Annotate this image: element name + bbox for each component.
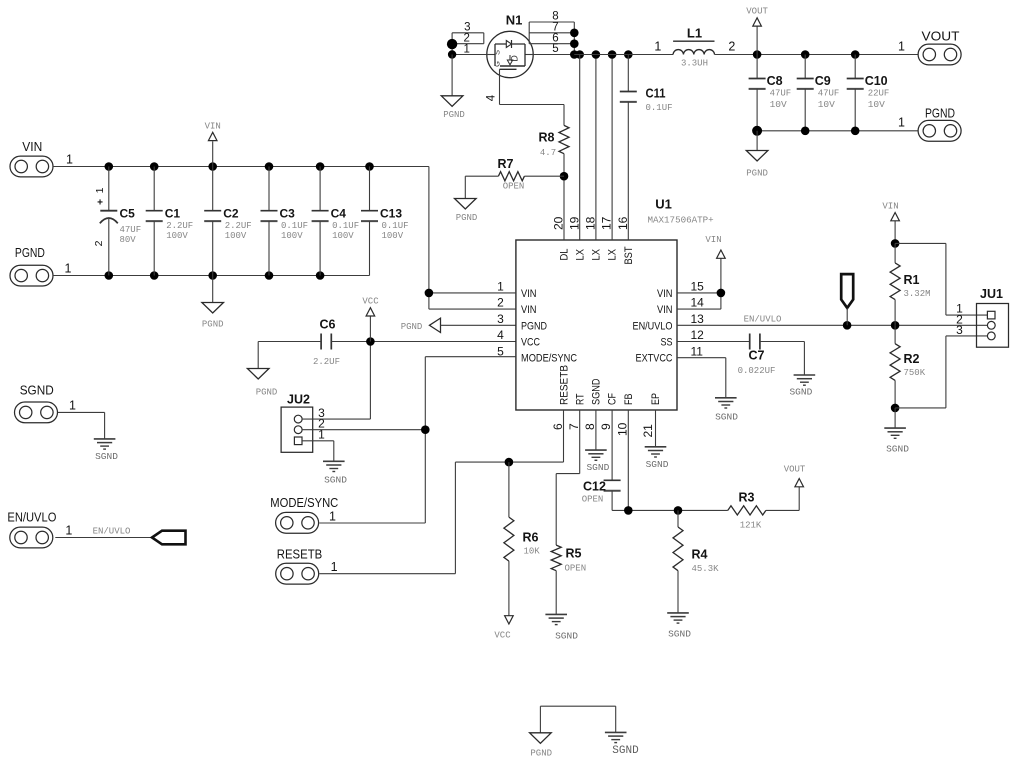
wire PGND out rail: [757, 130, 918, 132]
wire R7 left: [465, 176, 498, 198]
capacitor C8: [749, 55, 792, 131]
svg-text:VIN: VIN: [22, 139, 42, 154]
svg-text:VIN: VIN: [705, 235, 721, 245]
svg-text:3.32M: 3.32M: [904, 289, 931, 299]
wire C6 left to PGND: [258, 342, 321, 369]
svg-text:47UF: 47UF: [770, 89, 792, 99]
ground SGND (JU2): [323, 461, 347, 485]
resistor R2: [890, 325, 926, 408]
resistor R6: [504, 462, 540, 616]
svg-text:MAX17506ATP+: MAX17506ATP+: [648, 215, 714, 226]
svg-text:U1: U1: [655, 197, 672, 212]
ground PGND (C6): [247, 369, 277, 398]
ground SGND (conn): [94, 439, 118, 462]
svg-text:RESETB: RESETB: [277, 547, 323, 562]
svg-text:C9: C9: [815, 74, 831, 88]
wire R8 to DL: [563, 154, 565, 240]
svg-text:SGND: SGND: [715, 412, 738, 423]
resistor R4: [673, 510, 719, 613]
svg-text:80V: 80V: [120, 235, 137, 245]
capacitor C10: [847, 55, 890, 131]
svg-text:EN/UVLO: EN/UVLO: [7, 510, 56, 525]
svg-text:PGND: PGND: [15, 245, 45, 260]
power flag VIN (R1): [882, 202, 899, 244]
node EN/UVLO junctions: [843, 321, 900, 330]
svg-text:R5: R5: [566, 547, 582, 561]
wire EP pin21: [655, 410, 657, 447]
node PGND out junctions: [752, 126, 859, 136]
svg-text:EN/UVLO: EN/UVLO: [744, 315, 782, 325]
svg-text:SGND: SGND: [591, 378, 603, 405]
label U1 top pin names: [559, 246, 635, 264]
svg-text:JU1: JU1: [980, 287, 1003, 301]
wire FB node: [612, 509, 728, 511]
svg-text:1: 1: [94, 187, 106, 193]
svg-text:15: 15: [691, 280, 705, 294]
wire N1 gate: [486, 69, 565, 125]
svg-text:3: 3: [956, 323, 963, 337]
connector SGND J-pads: [15, 383, 77, 423]
svg-text:0.1UF: 0.1UF: [382, 221, 409, 231]
svg-text:SGND: SGND: [886, 444, 909, 455]
label U1 top pin numbers: [552, 216, 630, 230]
wire RT pin7: [556, 410, 580, 545]
ground SGND (EP): [645, 447, 669, 470]
svg-text:C1: C1: [165, 207, 181, 221]
svg-text:1: 1: [331, 560, 338, 574]
svg-text:1: 1: [65, 524, 72, 538]
wire EN/UVLO conn: [55, 537, 152, 539]
svg-text:750K: 750K: [904, 368, 926, 378]
connector MODE/SYNC J-pads: [270, 495, 338, 533]
svg-text:13: 13: [691, 312, 705, 326]
resistor R5: [551, 545, 586, 614]
wire EN/UVLO net: [677, 315, 988, 326]
svg-text:C13: C13: [380, 207, 402, 221]
svg-text:7: 7: [567, 423, 581, 430]
wire JU2-3 to VCC: [302, 342, 370, 420]
svg-text:SGND: SGND: [612, 745, 639, 757]
power flag VCC: [362, 297, 379, 342]
svg-text:SGND: SGND: [20, 383, 54, 398]
wire PGND-SGND tie: [540, 706, 615, 733]
svg-text:VIN: VIN: [882, 202, 898, 212]
svg-text:1: 1: [329, 510, 336, 524]
label U1 right pin names: [633, 288, 673, 365]
node VIN-rail junctions: [105, 162, 374, 171]
flag EN/UVLO (pennant): [152, 531, 186, 545]
svg-text:22UF: 22UF: [868, 89, 890, 99]
svg-text:EN/UVLO: EN/UVLO: [93, 527, 131, 537]
svg-text:C10: C10: [865, 74, 888, 88]
svg-text:C6: C6: [320, 318, 336, 332]
ground SGND (tie): [605, 732, 639, 757]
capacitor C9: [797, 55, 840, 131]
svg-text:SGND: SGND: [646, 459, 669, 470]
svg-text:2.2UF: 2.2UF: [166, 221, 193, 231]
svg-text:PGND: PGND: [202, 320, 224, 330]
capacitor C11: [620, 55, 673, 241]
svg-text:R6: R6: [523, 531, 539, 545]
svg-text:1: 1: [497, 280, 504, 294]
capacitor C2: [204, 167, 252, 276]
svg-text:1: 1: [654, 40, 661, 54]
wire SGND pin8: [595, 410, 597, 450]
capacitor C6: [313, 318, 340, 368]
svg-text:EN/UVLO: EN/UVLO: [633, 320, 673, 332]
svg-text:3: 3: [497, 312, 504, 326]
svg-text:OPEN: OPEN: [582, 495, 604, 505]
svg-text:PGND: PGND: [925, 106, 955, 121]
label N1 pins 3/2/1: [463, 22, 470, 56]
svg-text:4.7: 4.7: [540, 148, 556, 158]
wire VIN pins 15/14: [677, 259, 721, 310]
wire N1 source ladder: [452, 33, 487, 55]
node R7/R8 junction: [560, 172, 569, 181]
svg-text:2: 2: [728, 40, 735, 54]
svg-text:SGND: SGND: [555, 631, 578, 642]
svg-text:PGND: PGND: [746, 169, 768, 179]
connector PGND J-pads: [10, 245, 72, 286]
svg-text:10V: 10V: [818, 99, 835, 110]
jumper JU2 header: [281, 393, 313, 453]
svg-text:R4: R4: [692, 548, 708, 562]
svg-text:45.3K: 45.3K: [692, 564, 720, 574]
svg-text:1: 1: [898, 116, 905, 130]
svg-text:2.2UF: 2.2UF: [313, 357, 340, 367]
svg-text:RESETB: RESETB: [559, 365, 571, 405]
svg-text:C3: C3: [280, 207, 296, 221]
wire FB pin10: [627, 410, 629, 510]
ground SGND (R5): [545, 614, 578, 641]
svg-text:4: 4: [497, 328, 504, 342]
svg-text:100V: 100V: [332, 231, 354, 241]
svg-text:PGND: PGND: [443, 110, 465, 120]
resistor R7: [498, 157, 564, 192]
label JU1 pin numbers: [956, 302, 963, 338]
svg-text:2: 2: [497, 296, 504, 310]
capacitor C1: [146, 167, 194, 276]
inductor L1: [673, 26, 714, 69]
capacitor C13: [361, 167, 409, 276]
node JU2-2 junction: [421, 425, 430, 434]
node FB junctions: [624, 506, 682, 515]
capacitor C4: [312, 167, 360, 276]
label U1 left pin numbers: [497, 280, 504, 359]
svg-text:1: 1: [69, 399, 76, 413]
svg-text:0.022UF: 0.022UF: [738, 366, 776, 376]
ground SGND (pin8): [585, 450, 609, 473]
svg-text:1: 1: [463, 44, 469, 56]
connector VOUT J-pads: [898, 29, 961, 65]
svg-text:FB: FB: [623, 394, 635, 406]
svg-text:121K: 121K: [740, 521, 762, 531]
power flag VCC (R6, down): [494, 616, 513, 641]
node VOUT rail junctions: [753, 50, 860, 59]
node LX rail junctions: [592, 50, 633, 59]
node N1 source junctions: [447, 39, 457, 59]
svg-text:RT: RT: [575, 393, 587, 405]
svg-text:100V: 100V: [281, 231, 303, 241]
label U1 right pin numbers: [691, 280, 705, 359]
flag PGND (pin3): [401, 318, 516, 332]
svg-text:VCC: VCC: [521, 337, 540, 349]
flag test-point (EN/UVLO): [841, 274, 853, 325]
svg-text:C7: C7: [749, 349, 765, 363]
node VIN15 junction: [717, 289, 726, 298]
wire JU2-1 to SGND: [302, 441, 334, 462]
power flag VIN (top): [205, 122, 221, 167]
svg-text:C11: C11: [646, 87, 666, 101]
svg-text:3.3UH: 3.3UH: [681, 59, 708, 69]
svg-text:VIN: VIN: [521, 304, 537, 316]
svg-text:6: 6: [551, 423, 565, 430]
svg-text:OPEN: OPEN: [565, 564, 587, 574]
label U1 left pin names: [521, 288, 577, 365]
ground SGND (R4): [667, 613, 691, 640]
wire RESETB conn: [319, 462, 563, 574]
svg-text:10: 10: [615, 422, 629, 436]
svg-text:BST: BST: [623, 246, 635, 264]
svg-text:G: G: [493, 61, 502, 67]
resistor R1: [890, 243, 930, 325]
wire N1 drain ladder: [529, 22, 574, 55]
svg-text:R7: R7: [498, 157, 514, 171]
svg-text:2: 2: [93, 240, 105, 246]
svg-text:PGND: PGND: [521, 320, 547, 332]
svg-text:MODE/SYNC: MODE/SYNC: [270, 495, 338, 510]
svg-text:VIN: VIN: [205, 122, 221, 132]
connector RESETB J-pads: [276, 547, 338, 585]
label U1 bottom pin numbers: [551, 422, 655, 437]
svg-text:R2: R2: [904, 352, 920, 366]
svg-text:10V: 10V: [770, 99, 787, 110]
svg-text:R3: R3: [739, 491, 755, 505]
svg-text:LX: LX: [591, 248, 603, 260]
svg-text:100V: 100V: [166, 231, 188, 241]
node pin1 junction: [425, 289, 434, 298]
svg-text:R8: R8: [539, 131, 555, 145]
ground PGND (tie): [530, 733, 552, 759]
svg-text:S: S: [493, 50, 502, 55]
svg-text:+: +: [97, 198, 103, 209]
svg-text:100V: 100V: [382, 231, 404, 241]
resistor R3: [728, 491, 799, 531]
svg-text:5: 5: [552, 43, 558, 55]
svg-text:VIN: VIN: [657, 304, 673, 316]
svg-text:D: D: [510, 55, 520, 62]
wire R1-top to JU1-1: [895, 243, 987, 315]
svg-text:12: 12: [691, 328, 705, 342]
svg-text:PGND: PGND: [456, 213, 478, 223]
wire EXTVCC: [677, 358, 726, 398]
svg-text:DL: DL: [559, 249, 571, 261]
label JU2 pin numbers: [318, 406, 325, 442]
resistor R8: [539, 125, 569, 158]
ground PGND (R7): [455, 199, 478, 224]
ground SGND (C7): [789, 375, 815, 398]
node N1 drain junctions: [570, 29, 584, 59]
wire C6 right to VCC pin: [331, 341, 516, 343]
svg-text:8: 8: [583, 423, 597, 430]
wire PGND rail: [53, 275, 370, 277]
wire C7 to SGND: [760, 342, 805, 376]
svg-text:EXTVCC: EXTVCC: [636, 353, 673, 365]
capacitor C7: [677, 334, 775, 377]
node R1 top junction: [891, 239, 900, 248]
svg-text:EP: EP: [650, 393, 662, 405]
wire MODE/SYNC conn: [319, 357, 425, 523]
node RESETB junction: [505, 458, 514, 467]
wire SW rail: [574, 40, 673, 55]
svg-text:100V: 100V: [225, 231, 247, 241]
svg-text:SGND: SGND: [95, 451, 118, 462]
svg-text:PGND: PGND: [530, 749, 552, 759]
capacitor C12: [582, 410, 621, 510]
svg-text:VIN: VIN: [657, 288, 673, 300]
ground SGND (EXTVCC): [715, 398, 738, 423]
connector PGND-out J-pads: [898, 106, 961, 142]
wire JU2-2 to MODE/SYNC: [302, 429, 425, 431]
svg-text:47UF: 47UF: [818, 89, 840, 99]
wire LX pins: [580, 55, 612, 241]
wire U1 pin5 MODE/SYNC: [425, 356, 516, 358]
svg-text:9: 9: [599, 423, 613, 430]
svg-text:2.2UF: 2.2UF: [225, 221, 252, 231]
svg-text:SGND: SGND: [324, 475, 347, 486]
svg-text:C4: C4: [331, 207, 347, 221]
power flag VOUT (R3): [784, 465, 806, 511]
op-amp U1 MAX17506ATP+ body: [516, 197, 714, 411]
svg-text:VIN: VIN: [521, 288, 537, 300]
connector EN/UVLO J-pads: [7, 510, 72, 548]
svg-text:VCC: VCC: [494, 631, 511, 641]
svg-text:SGND: SGND: [789, 387, 812, 398]
power flag VOUT (top): [746, 7, 768, 55]
svg-text:VCC: VCC: [362, 297, 379, 307]
ground PGND (out): [746, 131, 768, 179]
svg-text:L1: L1: [687, 26, 702, 41]
capacitor C3: [261, 167, 309, 276]
wire SGND conn: [58, 412, 105, 439]
svg-text:LX: LX: [575, 248, 587, 260]
svg-text:VOUT: VOUT: [746, 7, 768, 17]
svg-text:C5: C5: [120, 207, 136, 221]
wire VOUT rail: [715, 40, 919, 55]
label N1 pins 8/7/6/5: [552, 11, 558, 56]
svg-text:4: 4: [486, 94, 498, 101]
wire R2-bottom to JU1-3: [895, 336, 987, 408]
svg-text:10K: 10K: [524, 547, 541, 557]
svg-text:PGND: PGND: [401, 322, 423, 332]
transistor N1 body: [487, 13, 533, 78]
svg-text:LX: LX: [607, 248, 619, 260]
svg-text:47UF: 47UF: [120, 225, 142, 235]
svg-text:SGND: SGND: [668, 629, 691, 640]
svg-text:21: 21: [641, 424, 655, 438]
svg-text:VOUT: VOUT: [922, 29, 960, 44]
svg-text:CF: CF: [607, 393, 619, 405]
power flag VIN (pin15): [705, 235, 725, 258]
capacitor C5: [93, 167, 141, 276]
label U1 bottom pin names: [559, 365, 663, 405]
wire VIN rail: [53, 166, 429, 168]
svg-text:1: 1: [898, 40, 905, 54]
svg-text:SGND: SGND: [586, 462, 609, 473]
jumper JU1 header: [977, 287, 1009, 347]
svg-text:1: 1: [65, 262, 72, 276]
svg-text:PGND: PGND: [256, 388, 278, 398]
net label EN/UVLO (left): [93, 527, 131, 537]
svg-text:14: 14: [691, 296, 705, 310]
svg-text:C12: C12: [583, 480, 606, 494]
svg-text:0.1UF: 0.1UF: [281, 221, 308, 231]
svg-text:JU2: JU2: [287, 393, 310, 407]
svg-text:1: 1: [66, 153, 73, 167]
node PGND-rail junctions: [105, 271, 325, 280]
svg-text:0.1UF: 0.1UF: [646, 103, 673, 113]
node R2 bottom junction: [891, 404, 900, 413]
svg-text:10V: 10V: [868, 99, 885, 110]
ground PGND (below C2): [202, 276, 224, 330]
ground SGND (R2): [884, 408, 909, 455]
svg-text:SS: SS: [661, 337, 673, 349]
svg-text:OPEN: OPEN: [503, 182, 525, 192]
svg-text:11: 11: [691, 344, 704, 358]
svg-text:C8: C8: [767, 74, 783, 88]
connector VIN J-pads: [10, 139, 73, 177]
wire RESETB pin6: [563, 410, 565, 462]
svg-text:R1: R1: [904, 273, 920, 287]
node VCC junction: [366, 337, 375, 346]
svg-text:0.1UF: 0.1UF: [332, 221, 359, 231]
svg-text:N1: N1: [506, 13, 523, 28]
ground PGND (N1): [441, 55, 465, 121]
svg-text:VOUT: VOUT: [784, 465, 806, 475]
wire U1 pin1/pin2 VIN: [429, 167, 516, 310]
svg-text:MODE/SYNC: MODE/SYNC: [521, 353, 577, 365]
svg-text:C2: C2: [223, 207, 239, 221]
svg-text:20: 20: [552, 216, 566, 230]
